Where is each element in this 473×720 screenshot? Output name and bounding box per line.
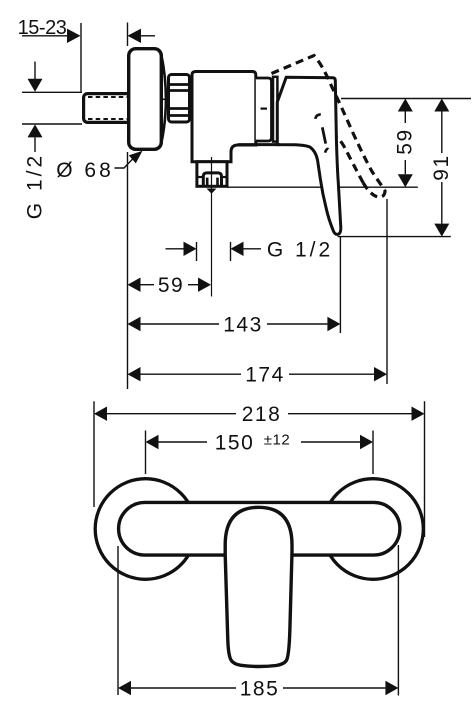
cartridge section — [256, 78, 272, 141]
reference line outlet bottom level — [227, 186, 418, 188]
outlet tip — [207, 189, 217, 194]
svg-text:±12: ±12 — [264, 432, 290, 449]
dimension 15-23 line right segment — [141, 35, 155, 37]
outlet nut side lines — [197, 176, 203, 178]
dimension G1/2 pipe upper arrow — [28, 62, 43, 92]
label 59 horizontal — [158, 274, 184, 297]
extension line escutcheon face top — [127, 23, 129, 47]
extension line 185 left — [117, 546, 119, 695]
svg-text:143: 143 — [223, 314, 263, 337]
extension line 150 left — [145, 431, 147, 475]
svg-text:185: 185 — [240, 678, 280, 701]
handle cap — [273, 77, 277, 142]
dimension 59 horizontal — [128, 278, 212, 292]
outlet block — [197, 162, 227, 187]
dashed lever tip arc — [363, 183, 385, 197]
outlet center line — [211, 157, 213, 297]
svg-text:174: 174 — [245, 364, 285, 387]
svg-text:150: 150 — [215, 432, 255, 455]
plate to nut connector line — [161, 98, 169, 100]
dashed lever raised position upper edge — [272, 56, 386, 191]
svg-text:G 1/2: G 1/2 — [267, 239, 333, 262]
leader line diameter 68 — [115, 157, 136, 169]
dimension 150 — [146, 435, 374, 449]
outlet nut inner verticals — [206, 178, 209, 186]
extension line handle tip level — [338, 236, 451, 238]
dimension 15-23 line left segment — [22, 35, 68, 37]
extension line dashed lever tip vertical — [386, 199, 388, 384]
label diameter 68 — [56, 159, 114, 182]
label 218 — [242, 403, 282, 426]
dimension 185 — [118, 681, 398, 695]
escutcheon circle left — [95, 479, 196, 580]
pipe bottom reference line — [22, 123, 82, 125]
dimension G1/2 outlet left arrow — [166, 248, 184, 250]
handle tongue front view — [225, 507, 292, 666]
dimension 174 — [128, 367, 388, 381]
extension line escutcheon face (long left) — [127, 152, 129, 389]
dimension G1/2 outlet right arrow — [231, 242, 244, 256]
label 143 — [223, 314, 263, 337]
label 150 plus tolerance — [215, 432, 290, 455]
mixer body side view — [192, 72, 256, 162]
svg-text:59: 59 — [394, 128, 417, 154]
svg-text:218: 218 — [242, 403, 282, 426]
body underside line — [238, 143, 280, 146]
label 185 — [240, 678, 280, 701]
dashed hidden contour segment — [322, 127, 325, 143]
pipe top reference line — [22, 91, 82, 93]
extension line 150 right — [372, 431, 374, 475]
dimension 15-23 right arrow — [128, 29, 142, 43]
supply pipe — [84, 94, 132, 123]
leader arrow diameter 68 — [129, 151, 143, 164]
svg-text:59: 59 — [158, 274, 184, 297]
outlet union nut — [203, 173, 221, 186]
extension line 218 left — [93, 401, 95, 507]
dimension 143 — [128, 317, 341, 331]
svg-text:Ø 68: Ø 68 — [56, 159, 114, 182]
label 91 vertical (rotated) — [430, 154, 453, 180]
label 174 — [245, 364, 285, 387]
label G 1/2 outlet — [267, 239, 333, 262]
escutcheon plate side view — [129, 49, 166, 150]
lever handle solid — [277, 77, 340, 234]
dimension 218 — [94, 407, 425, 421]
dimension 15-23 label — [18, 17, 67, 39]
escutcheon circle right — [323, 479, 424, 580]
svg-text:G 1/2: G 1/2 — [24, 153, 47, 219]
G1/2 outlet extension lines — [196, 242, 198, 261]
label G 1/2 pipe (rotated) — [24, 153, 47, 219]
ribbed connection nut — [169, 75, 190, 123]
svg-text:91: 91 — [430, 154, 453, 180]
cartridge tick mark — [261, 107, 268, 109]
dimension G1/2 pipe lower arrow — [28, 124, 43, 152]
extension line handle tip vertical — [339, 237, 341, 333]
extension line 185 right — [397, 545, 399, 696]
body bar front view — [119, 502, 400, 555]
extension line wall face — [80, 23, 82, 92]
dashed hidden contour comma — [325, 149, 328, 153]
dashed hidden contour hook — [315, 115, 321, 119]
dimension 91 vertical — [434, 99, 449, 237]
extension line top right (handle top level) — [341, 98, 471, 100]
extension line 218 right — [424, 401, 426, 537]
dimension 59 vertical — [398, 99, 413, 188]
label 59 vertical (rotated) — [394, 128, 417, 154]
dashed lever lower edge — [336, 137, 363, 184]
dimension 15-23 left arrow — [67, 29, 81, 43]
